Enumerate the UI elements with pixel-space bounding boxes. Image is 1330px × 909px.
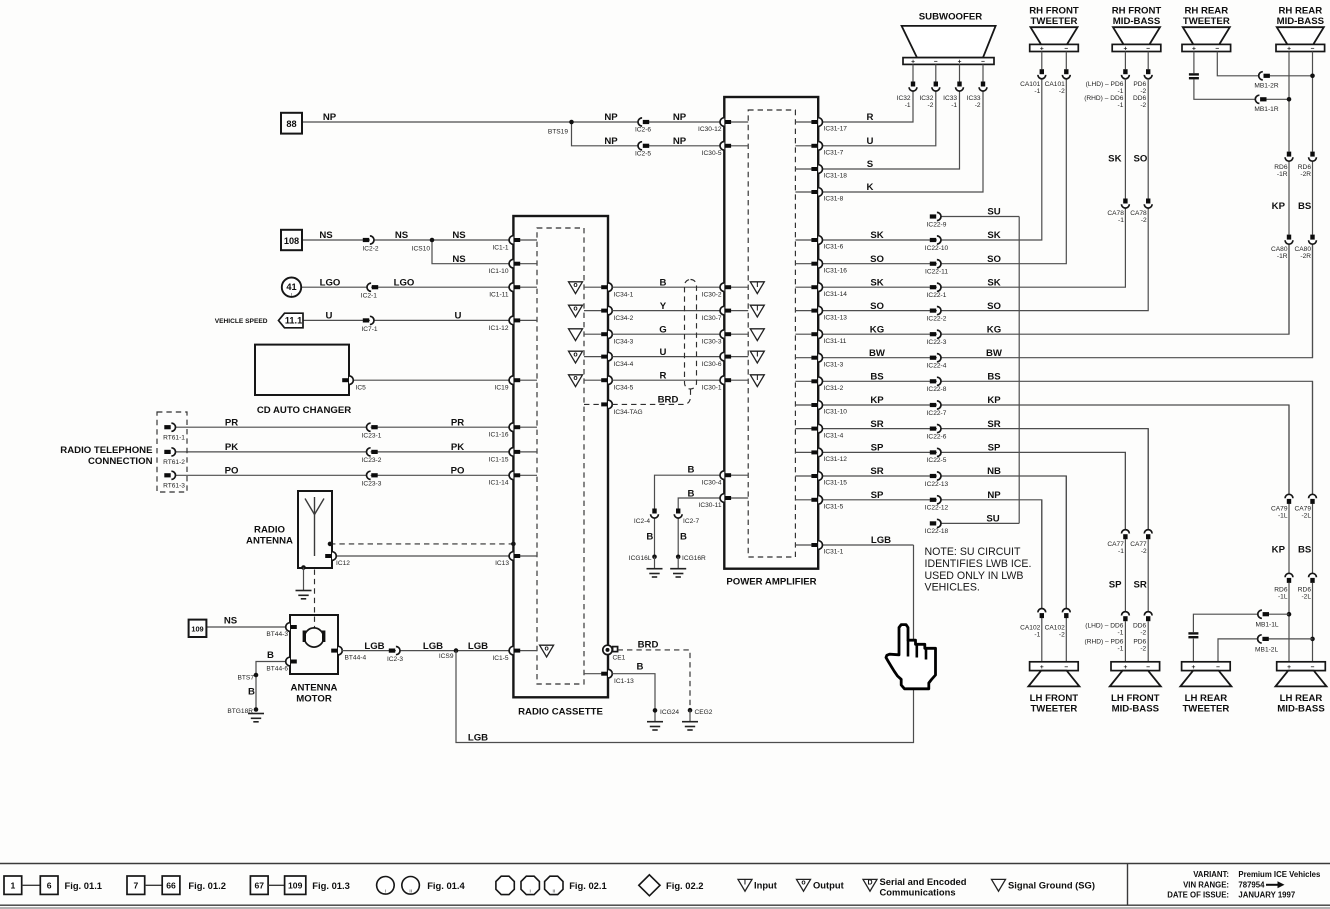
svg-text:CA101: CA101 [1045, 81, 1065, 88]
svg-text:-1L: -1L [1278, 593, 1288, 600]
speaker RH REAR MID-BASS [1277, 27, 1324, 44]
svg-text:(RHD) – DD6: (RHD) – DD6 [1084, 95, 1124, 102]
svg-text:IC30-4: IC30-4 [702, 479, 722, 486]
svg-text:IC1-16: IC1-16 [489, 432, 509, 439]
capacitor [1189, 73, 1199, 75]
svg-text:B: B [688, 464, 695, 475]
stem subwoofer terminal 1 [912, 64, 914, 81]
pin lead IC1-13 [584, 673, 602, 675]
unit RADIO CASSETTE inner dashed [537, 228, 584, 684]
svg-text:IC31-8: IC31-8 [824, 196, 844, 203]
pin lead IC31-2 [795, 380, 812, 382]
svg-text:CA78: CA78 [1130, 210, 1147, 217]
hand cursor [886, 625, 936, 689]
legend signal ground symbol [992, 879, 1006, 891]
connector IC7-1 [363, 316, 374, 324]
wire SR/SR row [823, 429, 1149, 530]
pin lead IC34-3 [584, 333, 602, 335]
svg-text:POWER AMPLIFIER: POWER AMPLIFIER [726, 577, 816, 588]
svg-text:o: o [544, 645, 548, 652]
wire U 11.1 to IC1-12 [303, 319, 510, 321]
svg-text:USED ONLY IN LWB: USED ONLY IN LWB [925, 570, 1024, 582]
legend item Fig. 02.1 [496, 876, 514, 894]
svg-text:IC30-3: IC30-3 [702, 338, 722, 345]
wire NP IC2-5 to IC30-5 [648, 145, 721, 147]
pin lead IC13 [520, 555, 537, 557]
pin IC34-3 [601, 330, 612, 339]
wire SU bottom [941, 522, 1019, 524]
pin IC31-13 [811, 306, 822, 315]
pin IC31-6 [811, 236, 822, 245]
pin lead IC30-1 [731, 379, 748, 381]
svg-text:CA79: CA79 [1271, 505, 1288, 512]
svg-text:BS: BS [1298, 545, 1312, 556]
svg-text:II: II [409, 888, 412, 893]
pin IC34-2 [601, 306, 612, 315]
wire LH rear mid-bass - column [1312, 381, 1314, 494]
pin IC1-16 [509, 423, 520, 432]
pin lead IC34-5 [584, 379, 602, 381]
pin lead IC31-11 [795, 333, 812, 335]
node BTS7 [254, 673, 259, 678]
pin lead IC31-4 [795, 428, 812, 430]
svg-text:IC31-14: IC31-14 [824, 291, 848, 298]
svg-text:MID-BASS: MID-BASS [1277, 16, 1325, 27]
pin IC30-12 [720, 118, 731, 127]
node [511, 542, 516, 547]
svg-text:LH REAR: LH REAR [1185, 693, 1228, 704]
node ICS9 [454, 648, 459, 653]
svg-text:CA77: CA77 [1130, 541, 1147, 548]
pin IC34-5 [601, 376, 612, 385]
svg-text:-1R: -1R [1277, 253, 1288, 260]
wire PO [176, 474, 510, 476]
svg-text:PK: PK [225, 442, 238, 453]
pin IC30-4 [720, 471, 731, 480]
speaker LH FRONT TWEETER [1030, 662, 1079, 671]
svg-text:NS: NS [224, 616, 238, 627]
legend box 1 [4, 876, 22, 894]
pin lead IC30-4 [731, 474, 748, 476]
svg-text:MID-BASS: MID-BASS [1277, 704, 1325, 715]
legend item Fig. 01.4 [377, 877, 395, 895]
input symbol [750, 351, 764, 363]
svg-text:JANUARY 1997: JANUARY 1997 [1238, 891, 1295, 900]
svg-text:BS: BS [1298, 201, 1312, 212]
node [328, 542, 333, 547]
svg-text:IC2-6: IC2-6 [635, 127, 651, 134]
connector IC22-8 [930, 377, 941, 385]
wire SR/NB row [823, 476, 1067, 609]
svg-text:IC31-1: IC31-1 [824, 549, 844, 556]
svg-text:RD6: RD6 [1274, 164, 1288, 171]
svg-text:R: R [660, 370, 667, 381]
svg-text:IC1-13: IC1-13 [614, 678, 634, 685]
wire B IC1-13 to ICG24 [612, 674, 655, 722]
svg-text:DATE OF ISSUE:: DATE OF ISSUE: [1167, 891, 1229, 900]
svg-text:MB1-1R: MB1-1R [1254, 106, 1278, 113]
svg-text:TWEETER: TWEETER [1030, 704, 1077, 715]
svg-text:CA102: CA102 [1020, 624, 1040, 631]
svg-text:ICG16R: ICG16R [682, 555, 706, 562]
svg-text:TWEETER: TWEETER [1031, 16, 1078, 27]
svg-text:IC30-6: IC30-6 [702, 361, 722, 368]
svg-text:NP: NP [673, 112, 687, 123]
svg-text:IC7-1: IC7-1 [361, 326, 377, 333]
stem subwoofer terminal 2 [935, 64, 937, 81]
node [1310, 74, 1315, 79]
svg-text:(RHD) – PD6: (RHD) – PD6 [1085, 639, 1124, 646]
svg-text:-1: -1 [1118, 217, 1124, 224]
wire SK/SK row [823, 79, 1042, 240]
pin IC1-1 [509, 236, 520, 245]
legend divider [1127, 864, 1129, 906]
wire SU link [1018, 217, 1020, 524]
connector IC33-2 [979, 82, 987, 92]
wire BW/BW row [823, 244, 1313, 358]
connector IC22-11 [930, 260, 941, 268]
box RADIO ANTENNA [298, 491, 332, 568]
svg-text:109: 109 [288, 881, 303, 891]
svg-text:6: 6 [47, 881, 52, 891]
pin IC5 [342, 376, 353, 385]
connector CA78-1 [1122, 199, 1130, 209]
wire NP to IC2-6 [572, 121, 639, 123]
svg-text:108: 108 [284, 236, 299, 246]
svg-text:IC22-4: IC22-4 [927, 363, 947, 370]
wire NP branch BTS19 down [572, 122, 639, 146]
node CEG2 [688, 708, 693, 713]
connector IC22-1 [930, 283, 941, 291]
wire K to subwoofer [823, 91, 984, 192]
svg-text:IC2-2: IC2-2 [362, 245, 378, 252]
unit POWER AMPLIFIER outer box [724, 97, 818, 569]
pin IC34-TAG [601, 400, 612, 409]
pin lead IC34-2 [584, 310, 602, 312]
svg-text:IC34-1: IC34-1 [614, 292, 634, 299]
antenna mast symbol [314, 515, 316, 557]
ground ICG16R [670, 569, 686, 577]
svg-text:IC2-7: IC2-7 [683, 518, 699, 525]
svg-text:KG: KG [987, 324, 1001, 335]
svg-text:NB: NB [987, 466, 1001, 477]
svg-text:CA78: CA78 [1107, 210, 1124, 217]
svg-text:B: B [688, 488, 695, 499]
output symbol [569, 305, 583, 317]
svg-text:(LHD) – PD6: (LHD) – PD6 [1086, 81, 1124, 88]
svg-text:BW: BW [986, 348, 1003, 359]
pin IC30-5 [720, 142, 731, 151]
svg-text:KG: KG [870, 324, 884, 335]
svg-text:IC22-12: IC22-12 [925, 505, 949, 512]
svg-text:SUBWOOFER: SUBWOOFER [919, 12, 982, 23]
legend box 67 [250, 876, 268, 894]
svg-text:RH FRONT: RH FRONT [1029, 6, 1079, 17]
svg-text:-2: -2 [1059, 631, 1065, 638]
connector IC23-3 [367, 471, 378, 479]
wire R to subwoofer [823, 91, 914, 122]
connector DD6-2/PD6-2 [1144, 612, 1152, 622]
pin IC31-8 [811, 188, 822, 197]
connector RT61-2 [164, 448, 175, 456]
pin IC30-11 [720, 494, 731, 503]
legend box 109 [285, 876, 306, 894]
speaker LH REAR MID-BASS [1277, 662, 1326, 671]
wire PK [176, 451, 510, 453]
svg-text:Input: Input [754, 880, 777, 891]
wire SO/SO row [823, 208, 1149, 311]
speaker SUBWOOFER [902, 26, 996, 58]
connector MB1-1L [1258, 610, 1269, 618]
svg-text:NS: NS [452, 230, 466, 241]
svg-text:−: − [1146, 664, 1150, 671]
speaker LH FRONT MID-BASS [1111, 662, 1160, 671]
svg-text:-2: -2 [1140, 629, 1146, 636]
connector IC22-7 [930, 401, 941, 409]
svg-text:Fig. 01.2: Fig. 01.2 [188, 880, 226, 891]
connector IC2-2 [363, 236, 374, 244]
svg-text:IC1-12: IC1-12 [489, 325, 509, 332]
svg-text:-2R: -2R [1300, 171, 1311, 178]
dashed drive link antenna to motor [314, 570, 316, 629]
svg-text:BRD: BRD [638, 640, 659, 651]
legend bar [0, 863, 1330, 865]
svg-text:B: B [660, 277, 667, 288]
svg-text:RADIO: RADIO [254, 524, 285, 535]
speaker RH FRONT MID-BASS [1113, 27, 1160, 44]
svg-text:S: S [867, 159, 874, 170]
wire SP/SP row [823, 452, 1126, 530]
svg-text:IC31-7: IC31-7 [824, 150, 844, 157]
input symbol [750, 282, 764, 294]
signal ground symbol [750, 329, 764, 341]
svg-text:IC2-5: IC2-5 [635, 150, 651, 157]
pin IC12 [325, 552, 336, 561]
node ICG16R [676, 555, 681, 560]
svg-text:BS: BS [870, 372, 884, 383]
connector IC33-1 [956, 82, 964, 92]
svg-text:IC30-11: IC30-11 [699, 502, 722, 509]
svg-text:K: K [867, 182, 874, 193]
svg-text:KP: KP [1272, 545, 1286, 556]
pin IC31-15 [811, 472, 822, 481]
pin lead IC31-17 [795, 121, 812, 123]
svg-text:IC2-3: IC2-3 [387, 656, 403, 663]
svg-text:BS: BS [987, 372, 1001, 383]
svg-text:IC31-2: IC31-2 [824, 385, 844, 392]
connector IC22-2 [930, 307, 941, 315]
pin lead IC34-4 [584, 356, 602, 358]
svg-text:IC22-6: IC22-6 [927, 433, 947, 440]
svg-text:SU: SU [987, 207, 1000, 218]
pin lead IC30-11 [731, 497, 748, 499]
svg-text:MB1-2L: MB1-2L [1255, 646, 1278, 653]
pin lead IC30-5 [731, 145, 748, 147]
svg-text:IC2-4: IC2-4 [634, 518, 650, 525]
pin lead IC1-1 [520, 239, 537, 241]
svg-text:Fig. 01.1: Fig. 01.1 [65, 880, 103, 891]
stem PD6/DD6 [1124, 52, 1126, 70]
connector IC2-4 [651, 509, 659, 519]
legend box 7 [127, 876, 145, 894]
vehicle speed in-arrow 11.1 [279, 313, 304, 328]
wire KG/KG row [823, 244, 1290, 334]
svg-text:CA79: CA79 [1295, 505, 1312, 512]
svg-text:B: B [680, 532, 687, 543]
pin lead IC31-14 [795, 286, 812, 288]
svg-text:I: I [530, 888, 531, 893]
screened cable loop [685, 280, 697, 390]
pin IC34-4 [601, 352, 612, 361]
svg-text:IC33: IC33 [967, 95, 981, 102]
svg-text:−: − [1064, 664, 1068, 671]
svg-text:o: o [573, 282, 577, 289]
wire S to subwoofer [823, 91, 960, 169]
wire U cassette to amp [612, 356, 720, 358]
connector IC32-2 [932, 82, 940, 92]
svg-text:o: o [801, 880, 805, 887]
svg-text:BW: BW [869, 348, 886, 359]
wire LH rear mid-bass + column [1288, 405, 1290, 494]
svg-text:-1: -1 [905, 102, 911, 109]
svg-text:LGB: LGB [468, 641, 488, 652]
svg-text:-1: -1 [951, 102, 957, 109]
svg-text:-2: -2 [1140, 646, 1146, 653]
svg-text:41: 41 [286, 282, 296, 292]
connector IC22-10 [930, 236, 941, 244]
node BTS19 [569, 120, 574, 125]
speaker RH FRONT TWEETER [1031, 27, 1078, 44]
pin lead IC30-2 [731, 286, 748, 288]
wire LH front tweeter + column [1041, 500, 1043, 609]
connector CA78-2 [1144, 199, 1152, 209]
svg-text:RH REAR: RH REAR [1184, 6, 1228, 17]
dashed box RT61 radio telephone connector [157, 412, 187, 492]
pin lead IC30-6 [731, 356, 748, 358]
svg-text:IC31-11: IC31-11 [824, 338, 847, 345]
wire RH rear tweeter - [1217, 52, 1259, 76]
svg-text:IC1-15: IC1-15 [489, 456, 509, 463]
pin IC1-14 [509, 471, 520, 480]
svg-text:SO: SO [987, 254, 1001, 265]
pin IC31-3 [811, 353, 822, 362]
legend input symbol [738, 879, 752, 891]
pin BT44-4 [331, 646, 342, 655]
svg-text:I: I [385, 888, 386, 893]
connector RT61-3 [164, 471, 175, 479]
svg-text:ICS9: ICS9 [439, 653, 454, 660]
svg-text:+: + [1123, 664, 1127, 671]
svg-text:11.1: 11.1 [285, 316, 302, 326]
svg-text:B: B [637, 661, 644, 672]
pin IC1-15 [509, 448, 520, 457]
wire SO/SO row [823, 79, 1067, 264]
connector RD6-1R [1285, 152, 1293, 162]
wire LH rear tweeter + with capacitor [1192, 639, 1194, 662]
svg-text:U: U [660, 347, 667, 358]
signal ground symbol [569, 329, 583, 341]
connector IC22-18 [930, 519, 941, 527]
svg-text:RADIO CASSETTE: RADIO CASSETTE [518, 707, 603, 718]
svg-text:RH FRONT: RH FRONT [1112, 6, 1162, 17]
svg-text:RT61-2: RT61-2 [163, 459, 185, 466]
antenna ground [301, 565, 306, 570]
pin lead IC1-10 [520, 263, 537, 265]
svg-text:IC31-6: IC31-6 [824, 244, 844, 251]
svg-text:ICG16L: ICG16L [629, 555, 652, 562]
svg-text:BT44-6: BT44-6 [266, 666, 288, 673]
svg-text:LGB: LGB [423, 641, 443, 652]
svg-text:NP: NP [323, 112, 337, 123]
connector CA77-1 [1122, 530, 1130, 540]
svg-text:67: 67 [254, 881, 264, 891]
wire NS 109 to BT44-3 [207, 626, 287, 628]
svg-text:IC22-10: IC22-10 [925, 245, 949, 252]
svg-text:-2: -2 [928, 102, 934, 109]
svg-text:I: I [756, 282, 758, 289]
svg-text:I: I [756, 351, 758, 358]
svg-text:NS: NS [395, 230, 409, 241]
svg-text:IC31-10: IC31-10 [824, 409, 848, 416]
svg-text:CA80: CA80 [1271, 246, 1288, 253]
connector IC2-6 [638, 118, 649, 126]
pin IC30-2 [720, 283, 731, 292]
svg-text:IC22-5: IC22-5 [927, 457, 947, 464]
connector IC22-13 [930, 472, 941, 480]
svg-text:RT61-1: RT61-1 [163, 434, 185, 441]
connector RD6-2R [1309, 152, 1317, 162]
svg-text:IC19: IC19 [495, 385, 509, 392]
svg-text:SK: SK [870, 277, 883, 288]
svg-text:IC34-3: IC34-3 [614, 339, 634, 346]
connector DD6-1/PD6-1 [1122, 612, 1130, 622]
legend serial symbol [863, 879, 877, 891]
connector CA79-1L [1285, 494, 1293, 504]
svg-text:IC31-3: IC31-3 [824, 361, 844, 368]
svg-text:VEHICLES.: VEHICLES. [925, 582, 980, 594]
svg-text:66: 66 [166, 881, 176, 891]
svg-text:B: B [646, 532, 653, 543]
pin lead IC31-3 [795, 357, 812, 359]
pin IC1-10 [509, 259, 520, 268]
wire G cassette to amp [612, 333, 720, 335]
svg-text:PR: PR [451, 417, 464, 428]
svg-text:Y: Y [660, 301, 667, 312]
unit RADIO CASSETTE outer box [513, 216, 608, 697]
svg-text:IC22-8: IC22-8 [927, 386, 947, 393]
svg-text:IC22-3: IC22-3 [927, 339, 947, 346]
ground ICG16L [647, 569, 663, 577]
svg-text:KP: KP [987, 395, 1001, 406]
svg-text:SK: SK [1108, 154, 1121, 165]
connector IC22-12 [930, 496, 941, 504]
svg-text:RT61-3: RT61-3 [163, 483, 185, 490]
wire LGO 41 to IC1-11 [301, 286, 510, 288]
pin lead IC19 [520, 379, 537, 381]
svg-text:MID-BASS: MID-BASS [1112, 704, 1160, 715]
speaker RH REAR TWEETER [1183, 27, 1230, 44]
svg-text:BRD: BRD [658, 395, 679, 406]
pin IC1-5 [509, 646, 520, 655]
svg-text:IC22-7: IC22-7 [927, 410, 947, 417]
wire B cassette to amp [612, 286, 720, 288]
svg-text:RH REAR: RH REAR [1278, 6, 1322, 17]
svg-text:Communications: Communications [880, 887, 956, 898]
svg-text:VARIANT:: VARIANT: [1193, 870, 1229, 879]
svg-text:VEHICLE SPEED: VEHICLE SPEED [215, 318, 268, 325]
svg-text:SU: SU [986, 514, 999, 525]
svg-text:CA102: CA102 [1045, 624, 1065, 631]
